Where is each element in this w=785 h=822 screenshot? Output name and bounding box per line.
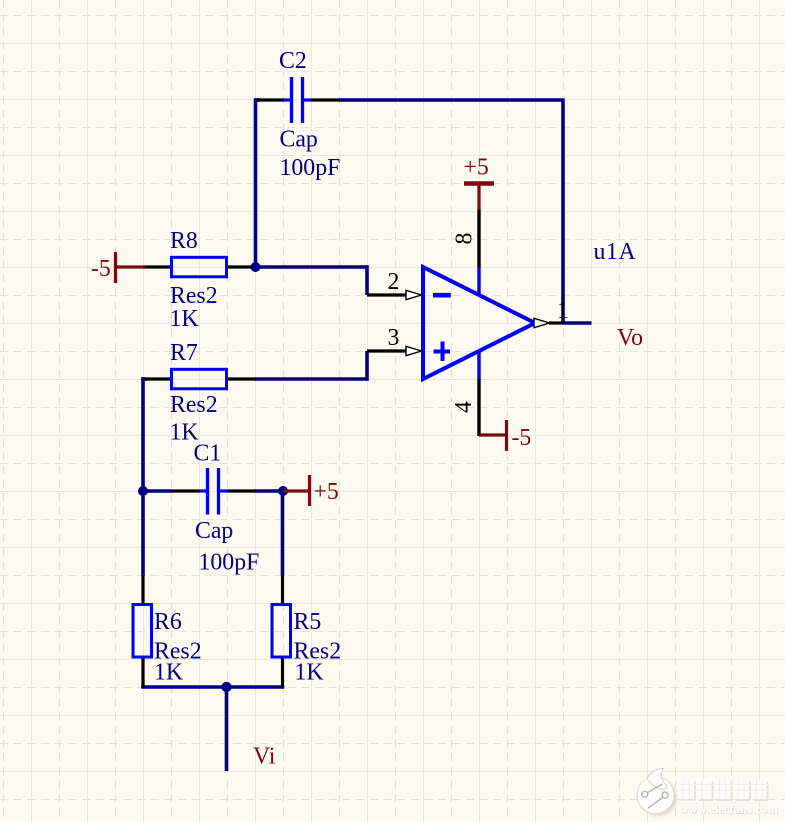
wire: R7 left vertical down to C1 node bbox=[141, 377, 147, 491]
op-amp U1 body bbox=[423, 267, 535, 379]
net label Vo bbox=[617, 325, 643, 351]
op-amp pin 2 lead and arrow bbox=[367, 290, 422, 299]
junction node C1 left bbox=[138, 486, 148, 496]
watermark logo elecfans bbox=[637, 768, 779, 817]
wire: top feedback horizontal bbox=[339, 98, 563, 102]
wire: left vertical C1 node to R6 bbox=[141, 491, 145, 576]
svg-text:Vi: Vi bbox=[253, 744, 276, 770]
op-amp pin 4 (V-) bbox=[477, 350, 480, 436]
label R5 designator bbox=[294, 609, 322, 635]
pin number 3 bbox=[388, 325, 400, 351]
svg-text:C1: C1 bbox=[194, 441, 222, 467]
svg-text:8: 8 bbox=[452, 233, 478, 245]
wire: bottom horizontal R6-R5 bbox=[141, 685, 284, 689]
wire: R7 to pin3 horizontal bbox=[255, 377, 367, 381]
op-amp output pin 1 lead and arrow bbox=[534, 318, 564, 327]
power port +5 at C1 right bbox=[283, 475, 339, 506]
label R6 value 1K bbox=[154, 660, 183, 686]
svg-text:Res2: Res2 bbox=[170, 392, 218, 418]
junction node at R8 / C2 / pin2 bbox=[251, 262, 261, 272]
pin number 8 bbox=[452, 233, 478, 245]
label R6 comment Res2 bbox=[154, 639, 202, 665]
label R8 value 1K bbox=[170, 306, 199, 332]
label R7 comment Res2 bbox=[170, 392, 218, 418]
svg-text:1K: 1K bbox=[295, 660, 324, 686]
svg-text:u1A: u1A bbox=[594, 239, 637, 265]
label R6 designator bbox=[154, 609, 182, 635]
wire: pin2 vertical drop bbox=[365, 265, 369, 295]
svg-text:R8: R8 bbox=[170, 228, 198, 254]
net label Vi bbox=[253, 744, 276, 770]
svg-text:1: 1 bbox=[557, 298, 569, 324]
label R7 value 1K bbox=[170, 420, 199, 446]
svg-text:Vo: Vo bbox=[617, 325, 643, 351]
wire: Vi vertical bbox=[225, 687, 229, 771]
label C2 value 100pF bbox=[280, 155, 341, 181]
resistor R5 bbox=[272, 576, 291, 688]
label C1 designator bbox=[194, 441, 222, 467]
wire: output horizontal bbox=[563, 321, 592, 325]
resistor R8 bbox=[143, 257, 256, 277]
label R5 value 1K bbox=[295, 660, 324, 686]
svg-text:100pF: 100pF bbox=[280, 155, 341, 181]
svg-text:100pF: 100pF bbox=[199, 550, 260, 576]
label R8 designator bbox=[170, 228, 198, 254]
pin number 4 bbox=[451, 401, 477, 413]
svg-text:Cap: Cap bbox=[280, 127, 318, 153]
svg-text:4: 4 bbox=[451, 401, 477, 413]
power port -5 at R8 bbox=[91, 252, 145, 283]
svg-text:1K: 1K bbox=[154, 660, 183, 686]
label C1 comment Cap bbox=[195, 518, 233, 544]
watermark url www.elecfans.com bbox=[679, 804, 779, 817]
junction node C1 right bbox=[278, 486, 288, 496]
svg-text:C2: C2 bbox=[279, 48, 307, 74]
resistor R6 bbox=[133, 576, 152, 688]
wire: right vertical C1 node to R5 bbox=[281, 491, 285, 576]
label R5 comment Res2 bbox=[294, 639, 342, 665]
junction node Vi tap bbox=[221, 682, 231, 692]
svg-text:R7: R7 bbox=[170, 340, 198, 366]
label C2 designator bbox=[279, 48, 307, 74]
label R7 designator bbox=[170, 340, 198, 366]
label C2 comment Cap bbox=[280, 127, 318, 153]
elecfans logo circle bbox=[637, 768, 677, 816]
label R8 comment Res2 bbox=[170, 283, 218, 309]
wire: C2 left vertical down to R8 node bbox=[254, 98, 260, 267]
wire: C1 right stub bbox=[254, 489, 283, 493]
capacitor C2 bbox=[257, 77, 340, 123]
pin number 2 bbox=[388, 269, 400, 295]
capacitor C1 bbox=[171, 468, 255, 515]
svg-text:R6: R6 bbox=[154, 609, 182, 635]
svg-text:1K: 1K bbox=[170, 306, 199, 332]
svg-text:-5: -5 bbox=[512, 425, 532, 451]
wire: R8 node to pin2 horizontal bbox=[255, 265, 367, 269]
svg-text:2: 2 bbox=[388, 269, 400, 295]
svg-text:-5: -5 bbox=[91, 256, 111, 282]
wire: pin3 vertical rise bbox=[365, 351, 369, 381]
wire: feedback vertical from output bbox=[561, 98, 565, 323]
watermark chinese characters 电子发烧友 bbox=[678, 779, 769, 801]
svg-text:Cap: Cap bbox=[195, 518, 233, 544]
svg-text:+5: +5 bbox=[314, 479, 339, 505]
label C1 value 100pF bbox=[199, 550, 260, 576]
wire: C1 left stub bbox=[143, 489, 172, 493]
resistor R7 bbox=[144, 369, 256, 389]
op-amp pin 8 (V+) bbox=[477, 209, 480, 296]
pin number 1 bbox=[557, 298, 569, 324]
svg-text:www.elecfans.com: www.elecfans.com bbox=[679, 804, 778, 816]
svg-text:3: 3 bbox=[388, 325, 400, 351]
svg-text:+5: +5 bbox=[464, 155, 489, 181]
svg-text:R5: R5 bbox=[294, 609, 322, 635]
power port +5 at pin 8 bbox=[464, 155, 495, 211]
op-amp pin 3 lead and arrow bbox=[367, 346, 422, 355]
power port -5 at pin 4 bbox=[479, 420, 531, 451]
label U1 designator u1A bbox=[594, 239, 637, 265]
